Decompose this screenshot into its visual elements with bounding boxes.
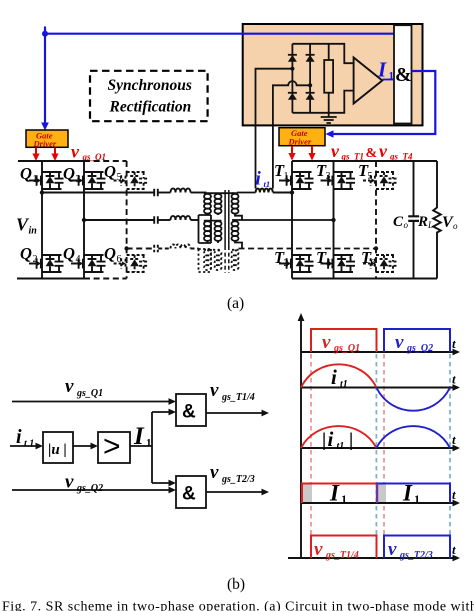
wire vgsQ2 line <box>12 489 172 491</box>
wire: comparator output to and-gate <box>382 79 394 81</box>
capacitor phase2 <box>154 216 158 224</box>
svg-text:v: v <box>65 472 74 493</box>
bridge bottom node wire <box>292 91 353 113</box>
svg-text:t: t <box>452 372 456 387</box>
svg-text:>: > <box>103 430 121 463</box>
svg-text:Q: Q <box>20 164 32 183</box>
diode D2 <box>288 93 297 100</box>
wire: and-gate output to gate driver T <box>329 71 435 134</box>
capacitor phase1 <box>154 189 158 197</box>
wire phase3 dashed <box>127 248 154 250</box>
wire secondary bottom rail <box>292 278 437 280</box>
transformer X1 secondary winding <box>232 194 239 214</box>
dashed guide red mid <box>383 354 385 556</box>
pulse vgsT14 red <box>311 536 377 559</box>
I1 rect red <box>302 484 377 504</box>
wire X1 secondary bottom link <box>235 214 242 220</box>
sense resistor <box>328 44 330 60</box>
wire output T14 <box>206 412 264 414</box>
svg-text:Q: Q <box>104 162 116 181</box>
transformer X2 secondary winding <box>232 221 239 241</box>
svg-text:I: I <box>402 481 413 506</box>
node blue junction <box>42 31 48 37</box>
wire X2 top link <box>204 220 222 222</box>
svg-text:3: 3 <box>326 171 331 182</box>
and-gate U2 white block <box>394 25 412 123</box>
wire link rectangle dashed <box>199 249 212 272</box>
svg-text:Q: Q <box>63 164 75 183</box>
wire phase1c <box>191 192 207 194</box>
svg-text:gs_T1/4: gs_T1/4 <box>325 550 359 561</box>
svg-text:1: 1 <box>33 174 38 185</box>
wire B bridge to sense coil with hop <box>273 81 310 188</box>
svg-text:|u |: |u | <box>48 442 67 458</box>
wire branch bottom <box>152 482 172 484</box>
ground <box>321 113 337 123</box>
wire leg T3 T4 <box>333 161 335 279</box>
axis row3 <box>301 447 454 449</box>
axis row2 <box>301 387 454 389</box>
wire leg Q5 Q6 dashed <box>126 161 128 279</box>
transistor T3 <box>321 172 356 189</box>
wire X1 secondary out <box>232 192 256 195</box>
svg-text:i: i <box>16 426 22 448</box>
inductor phase1 <box>171 188 191 192</box>
transformer cluster <box>199 190 377 273</box>
transistor Q3 <box>71 172 106 189</box>
svg-text:2: 2 <box>33 254 38 265</box>
svg-text:v: v <box>210 380 219 401</box>
dashed guide blue right <box>449 354 451 556</box>
gate driver box Q <box>26 130 68 147</box>
node phase2 <box>82 218 86 222</box>
svg-text:v: v <box>331 141 340 161</box>
wire phase2b <box>158 219 170 221</box>
svg-text:Driver: Driver <box>33 139 57 149</box>
red gate arrows Q <box>32 148 58 162</box>
svg-text:o: o <box>453 221 458 231</box>
svg-text:3: 3 <box>76 174 81 185</box>
svg-text:gs_Q2: gs_Q2 <box>406 343 433 354</box>
node sec phase1 <box>290 190 294 194</box>
svg-text:t1: t1 <box>264 179 271 189</box>
transformer X2 primary winding B <box>215 221 222 241</box>
sine it1 blue half <box>376 388 450 411</box>
red gate arrows T <box>288 146 315 161</box>
wire A bridge to sense coil <box>256 69 293 189</box>
wire phase3b dashed <box>158 248 170 250</box>
svg-text:4: 4 <box>326 258 331 269</box>
diode D4 <box>306 93 315 100</box>
svg-text:gs_Q1: gs_Q1 <box>76 388 103 399</box>
wire branch top <box>152 411 172 413</box>
svg-text:Synchronous: Synchronous <box>108 77 192 94</box>
svg-text:t 1: t 1 <box>24 439 34 450</box>
svg-text:2: 2 <box>284 258 289 269</box>
svg-text:gs_T2/3: gs_T2/3 <box>399 550 433 561</box>
resistor RL zigzag <box>433 161 441 279</box>
svg-text:gs_T2/3: gs_T2/3 <box>221 474 255 485</box>
svg-text:v: v <box>314 539 323 560</box>
svg-text:in: in <box>29 226 38 237</box>
svg-text:I: I <box>377 58 387 82</box>
wire primary bottom rail <box>17 278 84 280</box>
transistor T1 <box>279 172 314 189</box>
svg-text:t: t <box>452 336 456 351</box>
svg-text:1: 1 <box>414 492 420 506</box>
svg-text:(b): (b) <box>227 576 245 593</box>
svg-text:&: & <box>366 146 378 161</box>
wire phase2 <box>84 219 154 221</box>
bridge top node wire <box>292 44 353 63</box>
transistor Q5 dashed <box>114 172 149 189</box>
svg-text:I: I <box>329 481 340 506</box>
node phase3 <box>124 246 128 250</box>
pulse vgsQ2 blue <box>384 329 450 352</box>
transformer X3 secondary winding dashed <box>232 250 239 270</box>
svg-text:5: 5 <box>368 171 373 182</box>
dashed guide red left <box>310 354 312 556</box>
node sec phase2 <box>331 218 335 222</box>
transistor Q4 <box>71 255 106 272</box>
svg-text:C: C <box>393 214 404 230</box>
wire: top blue control line <box>45 27 394 127</box>
transistor Q6 dashed <box>114 255 149 272</box>
wire link rectangle left <box>199 215 212 243</box>
capacitor Co branch <box>413 161 415 279</box>
svg-text:i: i <box>256 169 262 190</box>
svg-text:i: i <box>328 427 334 451</box>
svg-text:v: v <box>65 376 74 397</box>
wire phase1 <box>42 192 154 194</box>
svg-text:I: I <box>133 423 145 450</box>
transistor Q1 <box>29 172 64 189</box>
wire phase2c <box>191 219 199 221</box>
node sec phase3 <box>374 246 378 250</box>
wire X1 top link <box>204 192 234 194</box>
svg-text:v: v <box>210 462 219 483</box>
svg-text:R: R <box>417 214 428 230</box>
diode D1 <box>288 55 297 62</box>
svg-text:gs_T1: gs_T1 <box>341 152 365 162</box>
wire it1 input <box>10 445 39 447</box>
inductor phase3 dashed <box>171 244 191 248</box>
wire output T23 <box>206 491 264 493</box>
wire X3 top links dashed <box>204 249 239 251</box>
svg-text:v: v <box>395 332 404 353</box>
axis row5 <box>288 557 454 559</box>
svg-text:o: o <box>404 220 409 230</box>
svg-text:v: v <box>322 332 331 353</box>
and gate top <box>176 394 206 426</box>
svg-text:t: t <box>452 487 456 502</box>
inductor phase2 <box>171 216 191 220</box>
svg-text:Q: Q <box>63 244 75 263</box>
gate driver box T <box>279 128 325 146</box>
wire X2 secondary bottom <box>235 241 242 249</box>
transistor Q2 <box>29 255 64 272</box>
SR block orange box <box>243 24 423 125</box>
wire leg Q3 Q4 <box>83 161 85 279</box>
node B dot <box>308 83 312 87</box>
svg-text:5: 5 <box>117 172 122 183</box>
transformer X2 primary winding A <box>204 221 211 241</box>
synchronous rectification dashed box <box>90 71 208 121</box>
wire vgsQ1 line <box>12 401 172 403</box>
wire phase1b <box>158 192 170 194</box>
wire leg Q1 Q2 <box>41 161 43 279</box>
svg-text:i: i <box>331 365 337 389</box>
op-amp comparator U1 <box>354 58 383 104</box>
purple joint <box>376 484 378 504</box>
blue arrow into gate driver T <box>326 130 334 138</box>
diode D3 <box>306 55 315 62</box>
transistor T4 <box>321 255 356 272</box>
axis row1 <box>301 351 454 353</box>
svg-text:&: & <box>182 484 196 505</box>
svg-text:&: & <box>395 64 412 86</box>
wire leg T1 T2 <box>291 161 293 279</box>
svg-text:|: | <box>349 430 353 451</box>
svg-text:1: 1 <box>341 492 347 506</box>
wire I1 branch <box>130 412 152 483</box>
svg-text:Driver: Driver <box>288 137 312 147</box>
capacitor phase3 dashed <box>154 245 158 253</box>
svg-text:t: t <box>452 432 456 447</box>
svg-text:gs_Q2: gs_Q2 <box>76 483 103 494</box>
wire leg T5 T6 dashed <box>375 161 377 279</box>
svg-text:1: 1 <box>146 437 152 449</box>
svg-text:|: | <box>322 430 326 451</box>
wire primary top rail dashed <box>84 160 127 162</box>
wire X2 winding bottoms <box>208 241 219 243</box>
svg-text:6: 6 <box>371 258 376 269</box>
current sense coil it1 <box>256 189 292 193</box>
svg-text:v: v <box>379 141 388 161</box>
wire primary bottom rail dashed <box>84 278 127 280</box>
I1 rect blue <box>377 484 450 504</box>
axis row4 <box>301 502 454 504</box>
block abs u <box>43 432 73 463</box>
I1 gray overlap mid <box>378 485 386 503</box>
transformer X3 primary winding B dashed <box>215 250 222 270</box>
diode bridge column 1 <box>291 44 293 113</box>
svg-text:Rectification: Rectification <box>109 99 192 116</box>
wire secondary top rail <box>292 160 437 162</box>
transformer X3 dashed windings <box>199 249 239 272</box>
pulse vgsQ1 red <box>311 329 377 352</box>
transistor T2 <box>279 255 314 272</box>
wire abs to comp <box>73 445 94 447</box>
svg-text:v: v <box>71 142 80 162</box>
svg-text:gs_Q1: gs_Q1 <box>333 343 360 354</box>
wire primary top rail <box>18 160 84 162</box>
svg-text:(a): (a) <box>227 295 244 312</box>
waveform y axis <box>300 319 302 558</box>
wire winding bottoms X1 <box>208 214 219 215</box>
svg-text:L: L <box>427 220 433 230</box>
svg-text:Q: Q <box>20 244 32 263</box>
wire secondary phase2 <box>232 219 334 221</box>
transformer X1 primary winding A <box>206 193 208 195</box>
svg-text:4: 4 <box>76 254 81 265</box>
I1 gray overlap left <box>303 485 312 503</box>
svg-text:gs_T1/4: gs_T1/4 <box>221 392 255 403</box>
svg-text:t: t <box>452 542 456 557</box>
transistor T5 dashed <box>363 172 398 189</box>
svg-text:t1: t1 <box>340 379 348 390</box>
transformer X1 primary winding B <box>215 194 222 214</box>
svg-text:1: 1 <box>284 171 289 182</box>
block comparator gt <box>98 432 130 463</box>
svg-text:v: v <box>388 539 397 560</box>
blue arrow into gate driver Q <box>41 123 49 131</box>
diode bridge column 2 <box>309 44 311 113</box>
transistor T6 dashed <box>363 255 398 272</box>
svg-text:t1: t1 <box>337 441 345 452</box>
dashed guide blue mid <box>375 354 377 556</box>
wire phase3c dashed <box>191 248 199 250</box>
wire sense to T leg <box>273 192 292 194</box>
transformer core dashed <box>225 246 229 273</box>
sine it1 red half <box>301 364 376 387</box>
transformer core <box>225 190 229 246</box>
and gate bottom <box>176 476 206 508</box>
node A dot <box>290 67 294 71</box>
sine abs red hump <box>301 426 376 448</box>
pulse vgsT23 blue <box>384 536 450 559</box>
inductor it1 sense <box>256 189 273 193</box>
wire secondary phase3 dashed <box>239 248 377 250</box>
svg-text:Fig. 7. SR scheme in two-phas: Fig. 7. SR scheme in two-phase operation… <box>2 600 474 611</box>
svg-text:1: 1 <box>389 70 395 82</box>
svg-text:&: & <box>182 402 196 423</box>
node phase1 <box>40 190 44 194</box>
svg-text:Q: Q <box>104 244 116 263</box>
transformer X3 primary winding A dashed <box>204 250 211 270</box>
svg-text:6: 6 <box>117 254 122 265</box>
sine abs blue hump <box>376 426 450 448</box>
svg-text:gs_T4: gs_T4 <box>389 152 413 162</box>
